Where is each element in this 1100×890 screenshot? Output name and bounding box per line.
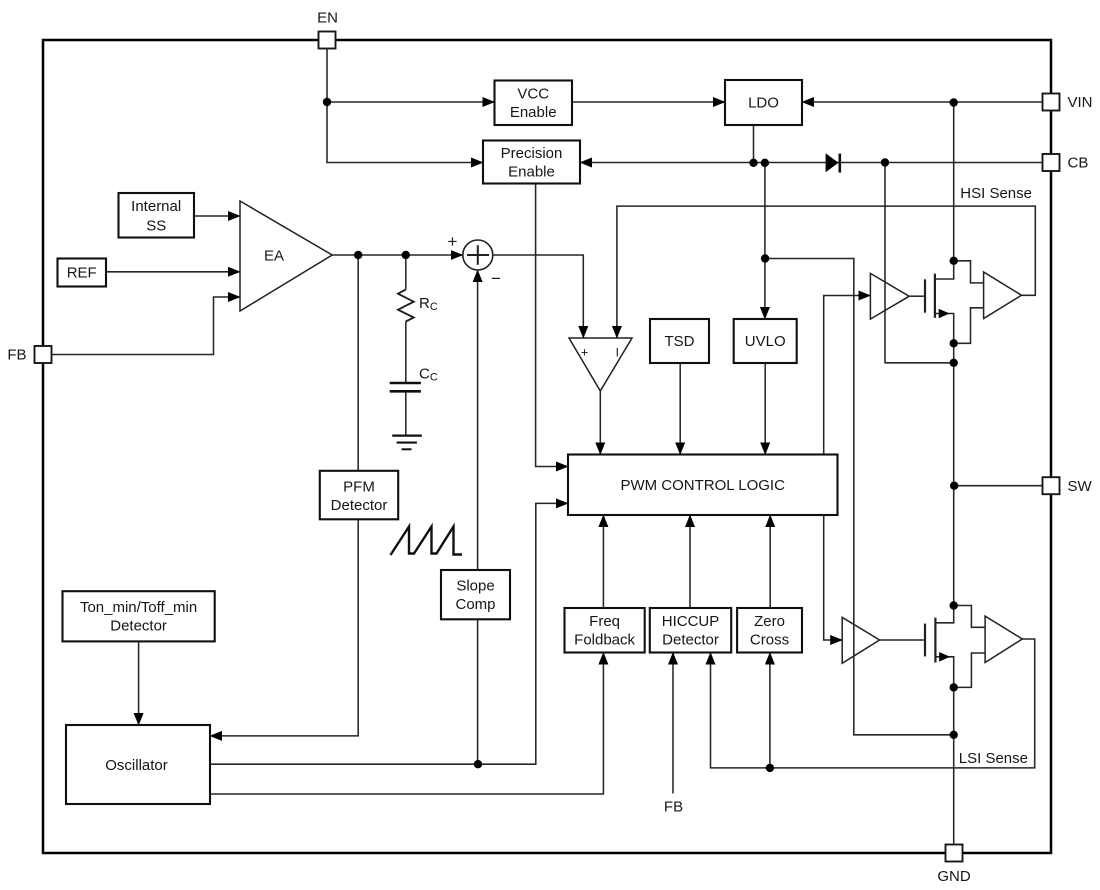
svg-text:VIN: VIN	[1068, 94, 1093, 111]
svg-text:SS: SS	[146, 218, 166, 235]
svg-text:I: I	[616, 346, 619, 360]
svg-text:CB: CB	[1068, 155, 1089, 172]
svg-text:Detector: Detector	[662, 631, 719, 648]
svg-text:Precision: Precision	[501, 145, 563, 162]
svg-text:FB: FB	[7, 347, 26, 364]
svg-text:Enable: Enable	[508, 164, 555, 181]
svg-text:EN: EN	[317, 10, 338, 27]
svg-text:Cross: Cross	[750, 631, 789, 648]
svg-text:SW: SW	[1068, 478, 1093, 495]
svg-text:−: −	[491, 269, 501, 288]
svg-text:Internal: Internal	[131, 198, 181, 215]
svg-text:FB: FB	[664, 799, 683, 816]
svg-text:GND: GND	[937, 868, 971, 885]
svg-text:HICCUP: HICCUP	[662, 613, 720, 630]
svg-text:Enable: Enable	[510, 104, 557, 121]
svg-text:PWM CONTROL LOGIC: PWM CONTROL LOGIC	[620, 477, 785, 494]
svg-text:Oscillator: Oscillator	[105, 757, 168, 774]
svg-text:Comp: Comp	[455, 596, 495, 613]
svg-text:Foldback: Foldback	[574, 631, 635, 648]
svg-text:VCC: VCC	[517, 86, 549, 103]
svg-text:Ton_min/Toff_min: Ton_min/Toff_min	[80, 599, 197, 616]
svg-text:EA: EA	[264, 248, 284, 265]
svg-text:Slope: Slope	[456, 577, 494, 594]
svg-text:Zero: Zero	[754, 613, 785, 630]
svg-text:UVLO: UVLO	[745, 333, 786, 350]
svg-text:Detector: Detector	[331, 497, 388, 514]
svg-text:+: +	[448, 232, 458, 251]
svg-text:HSI Sense: HSI Sense	[960, 185, 1032, 202]
svg-text:TSD: TSD	[665, 333, 695, 350]
svg-text:Detector: Detector	[110, 618, 167, 635]
svg-text:+: +	[581, 345, 589, 360]
svg-text:REF: REF	[67, 265, 97, 282]
svg-text:LSI Sense: LSI Sense	[959, 750, 1028, 767]
svg-text:Freq: Freq	[589, 613, 620, 630]
svg-text:LDO: LDO	[748, 95, 779, 112]
svg-text:PFM: PFM	[343, 479, 375, 496]
